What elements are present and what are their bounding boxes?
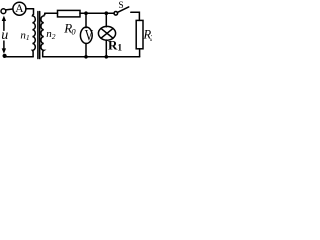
bottom-left terminal node [3,54,7,58]
voltmeter V circle [80,27,92,43]
transformer core bar left [37,12,39,59]
wire R2 to bottom wire [139,49,141,57]
transformer primary winding n1 [32,9,35,57]
lamp cross diagonal 2 [101,28,113,38]
wire secondary to R0 [45,12,58,14]
lamp bottom lead [105,40,107,57]
transformer core bar right [39,12,41,59]
switch blade [117,7,128,12]
svg-text:A: A [15,3,24,15]
voltmeter bottom lead [85,43,87,56]
lamp branch top lead [105,13,107,27]
svg-text:S: S [118,1,123,11]
node top wire at voltmeter [84,11,88,15]
arrowhead down of u [2,48,6,53]
lamp cross diagonal 1 [101,28,113,38]
arrowhead up of u [2,16,6,21]
bottom wire primary loop [5,56,33,58]
resistor R0 box [58,10,81,17]
switch S contact circle [114,12,118,16]
voltmeter branch top lead [85,13,87,27]
wire ammeter to transformer primary [26,8,34,10]
svg-text:u: u [1,28,8,43]
bottom wire secondary loop [43,56,140,58]
wire switch to top-right corner and down [131,12,140,20]
svg-text:V: V [85,27,94,45]
node bottom wire at lamp [105,55,109,59]
transformer secondary winding n2 [41,13,45,57]
node bottom wire at voltmeter [84,55,88,59]
wire R0 to switch [80,12,114,14]
wire terminal to ammeter [6,8,13,11]
source voltage arrow upper (head up) [3,20,5,30]
lamp circle [98,26,115,40]
resistor R2 box [136,20,143,48]
ammeter A circle [13,2,26,15]
node top wire at lamp [105,11,109,15]
source voltage arrow lower shaft [3,41,5,49]
svg-text:R2: R2 [143,28,153,43]
input terminal top-left [1,9,6,14]
